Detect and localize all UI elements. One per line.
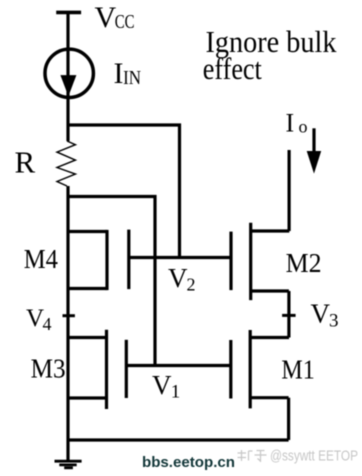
svg-text:4: 4 (43, 314, 52, 334)
svg-text:M3: M3 (31, 353, 66, 383)
svg-text:bbs.eetop.cn: bbs.eetop.cn (142, 454, 235, 471)
svg-text:@ssywtt EETOP: @ssywtt EETOP (270, 448, 358, 465)
svg-text:I: I (114, 57, 124, 90)
svg-text:V: V (95, 1, 117, 34)
svg-text:M2: M2 (286, 248, 322, 278)
svg-text:I: I (286, 109, 295, 138)
svg-text:V: V (311, 299, 331, 329)
svg-text:V: V (26, 305, 44, 332)
svg-text:M1: M1 (281, 355, 314, 385)
svg-text:3: 3 (329, 311, 339, 332)
svg-text:M4: M4 (24, 244, 59, 274)
svg-text:IN: IN (123, 67, 141, 89)
svg-text:o: o (299, 116, 308, 136)
svg-text:effect: effect (203, 51, 262, 86)
svg-text:R: R (15, 145, 36, 180)
svg-text:2: 2 (187, 274, 196, 294)
svg-text:V: V (168, 263, 188, 293)
svg-text:CC: CC (115, 11, 135, 33)
svg-text:1: 1 (171, 382, 181, 403)
svg-text:V: V (152, 370, 172, 400)
